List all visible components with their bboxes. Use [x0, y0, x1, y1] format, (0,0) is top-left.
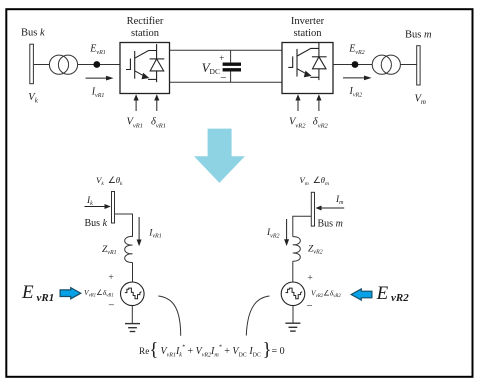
wire transformer T1 to rectifier: [78, 64, 121, 66]
wire transformer T2 to bus m: [400, 64, 416, 66]
wire inductor to source Vs1: [132, 263, 134, 283]
svg-text:IvR1: IvR1: [91, 86, 105, 99]
transformer T1: [49, 55, 68, 74]
svg-text:station: station: [131, 28, 160, 39]
svg-text:Ik: Ik: [86, 196, 93, 207]
converter valve Q1 (IGBT with antiparallel diode): [126, 44, 164, 82]
svg-text:Bus m: Bus m: [405, 29, 432, 40]
ground GND1: [125, 324, 140, 332]
capacitor C plates: [223, 62, 241, 65]
svg-text:{: {: [149, 340, 158, 361]
svg-text:EvR2: EvR2: [348, 44, 364, 57]
wire source Vs2 to ground: [292, 306, 294, 324]
arrow Im: [321, 207, 345, 209]
svg-text:Inverter: Inverter: [291, 16, 325, 27]
wire bus m down to inductor: [293, 216, 312, 236]
inductor ZvR2: [293, 237, 301, 262]
waveform glyph (Vs1): [125, 288, 142, 299]
waveform glyph (Vs2): [286, 288, 303, 299]
svg-text:+: +: [219, 53, 224, 63]
svg-text:Rectifier: Rectifier: [127, 16, 164, 27]
svg-text:Bus k: Bus k: [21, 28, 45, 39]
svg-text:Bus k: Bus k: [85, 218, 108, 229]
inverter station box: [282, 43, 333, 94]
svg-text:IvR2: IvR2: [266, 228, 280, 239]
source Vs2 (converter voltage source): [281, 282, 305, 306]
bus m bar (bottom): [311, 192, 314, 226]
control arrow VvR1: [135, 100, 137, 112]
svg-text:VvR1Ik* + VvR2Im* + VDC IDC: VvR1Ik* + VvR2Im* + VDC IDC: [161, 345, 262, 359]
svg-text:IvR2: IvR2: [349, 86, 363, 99]
svg-text:VvR1: VvR1: [127, 117, 144, 130]
svg-text:VDC: VDC: [202, 60, 220, 76]
transformer T2: [372, 55, 391, 74]
svg-text:−: −: [306, 300, 312, 312]
control arrow deltavR2: [318, 100, 320, 112]
DC link top wire: [170, 49, 283, 51]
wire bus k down to inductor: [115, 214, 133, 237]
svg-text:Vm: Vm: [415, 94, 426, 107]
svg-text:E: E: [21, 282, 34, 303]
svg-text:VvR2: VvR2: [289, 117, 306, 130]
node EvR2: [352, 61, 359, 68]
svg-text:−: −: [108, 300, 114, 312]
arrow Ik: [85, 206, 106, 208]
svg-text:VvR2∠δvR2: VvR2∠δvR2: [311, 288, 341, 299]
svg-text:Vk: Vk: [28, 92, 38, 105]
svg-text:IvR1: IvR1: [148, 228, 162, 239]
wire bus k to transformer: [34, 64, 50, 66]
svg-text:= 0: = 0: [272, 346, 285, 357]
svg-text:Vk∠θk: Vk∠θk: [96, 175, 123, 187]
arrow EvR1 (blue block, right): [60, 288, 81, 299]
capacitor C lead top: [230, 50, 232, 62]
svg-text:+: +: [307, 273, 312, 283]
svg-text:Vm∠θm: Vm∠θm: [299, 175, 329, 187]
wire source Vs1 to ground: [131, 306, 133, 324]
arrow IvR2 (top): [343, 77, 365, 79]
svg-text:vR1: vR1: [37, 292, 55, 304]
svg-text:ZvR2: ZvR2: [308, 245, 323, 256]
svg-text:Bus m: Bus m: [318, 218, 343, 229]
svg-text:}: }: [263, 340, 272, 361]
pointer curve from Vs1 to equation: [158, 296, 180, 336]
capacitor C lead bottom: [230, 72, 232, 83]
arrow IvR1 (top): [86, 77, 108, 79]
svg-text:station: station: [294, 28, 323, 39]
svg-text:EvR1: EvR1: [89, 44, 105, 57]
control arrow VvR2: [297, 100, 299, 112]
pointer curve from Vs2 to equation: [246, 296, 269, 336]
converter valve Q2 (IGBT with antiparallel diode): [288, 42, 326, 80]
arrow EvR2 (blue block, left): [351, 289, 372, 300]
svg-text:−: −: [220, 72, 226, 84]
svg-text:E: E: [376, 283, 389, 304]
arrow IvR2 (bottom): [286, 219, 288, 240]
svg-text:+: +: [108, 273, 113, 283]
rectifier station box: [120, 43, 170, 94]
wire inverter to transformer T2: [333, 64, 372, 66]
svg-text:δvR2: δvR2: [313, 117, 329, 130]
svg-text:Re: Re: [139, 347, 149, 357]
source Vs1 (converter voltage source): [121, 282, 145, 306]
arrow IvR1 (bottom): [138, 217, 140, 241]
svg-text:δvR1: δvR1: [151, 117, 166, 130]
bus k bar (bottom): [112, 192, 115, 224]
node EvR1: [93, 61, 100, 68]
inductor ZvR1: [125, 236, 133, 262]
bus k bar (top): [30, 44, 34, 83]
bus m bar (top): [417, 46, 420, 85]
control arrow deltavR1: [156, 100, 158, 112]
svg-text:Im: Im: [335, 195, 344, 206]
big down arrow: [194, 129, 245, 183]
svg-text:ZvR1: ZvR1: [102, 245, 117, 256]
svg-text:VvR1∠δvR1: VvR1∠δvR1: [84, 288, 114, 299]
svg-text:vR2: vR2: [391, 292, 409, 304]
DC link bottom wire: [170, 81, 283, 83]
wire inductor to source Vs2: [292, 261, 294, 282]
ground GND2: [285, 323, 300, 331]
